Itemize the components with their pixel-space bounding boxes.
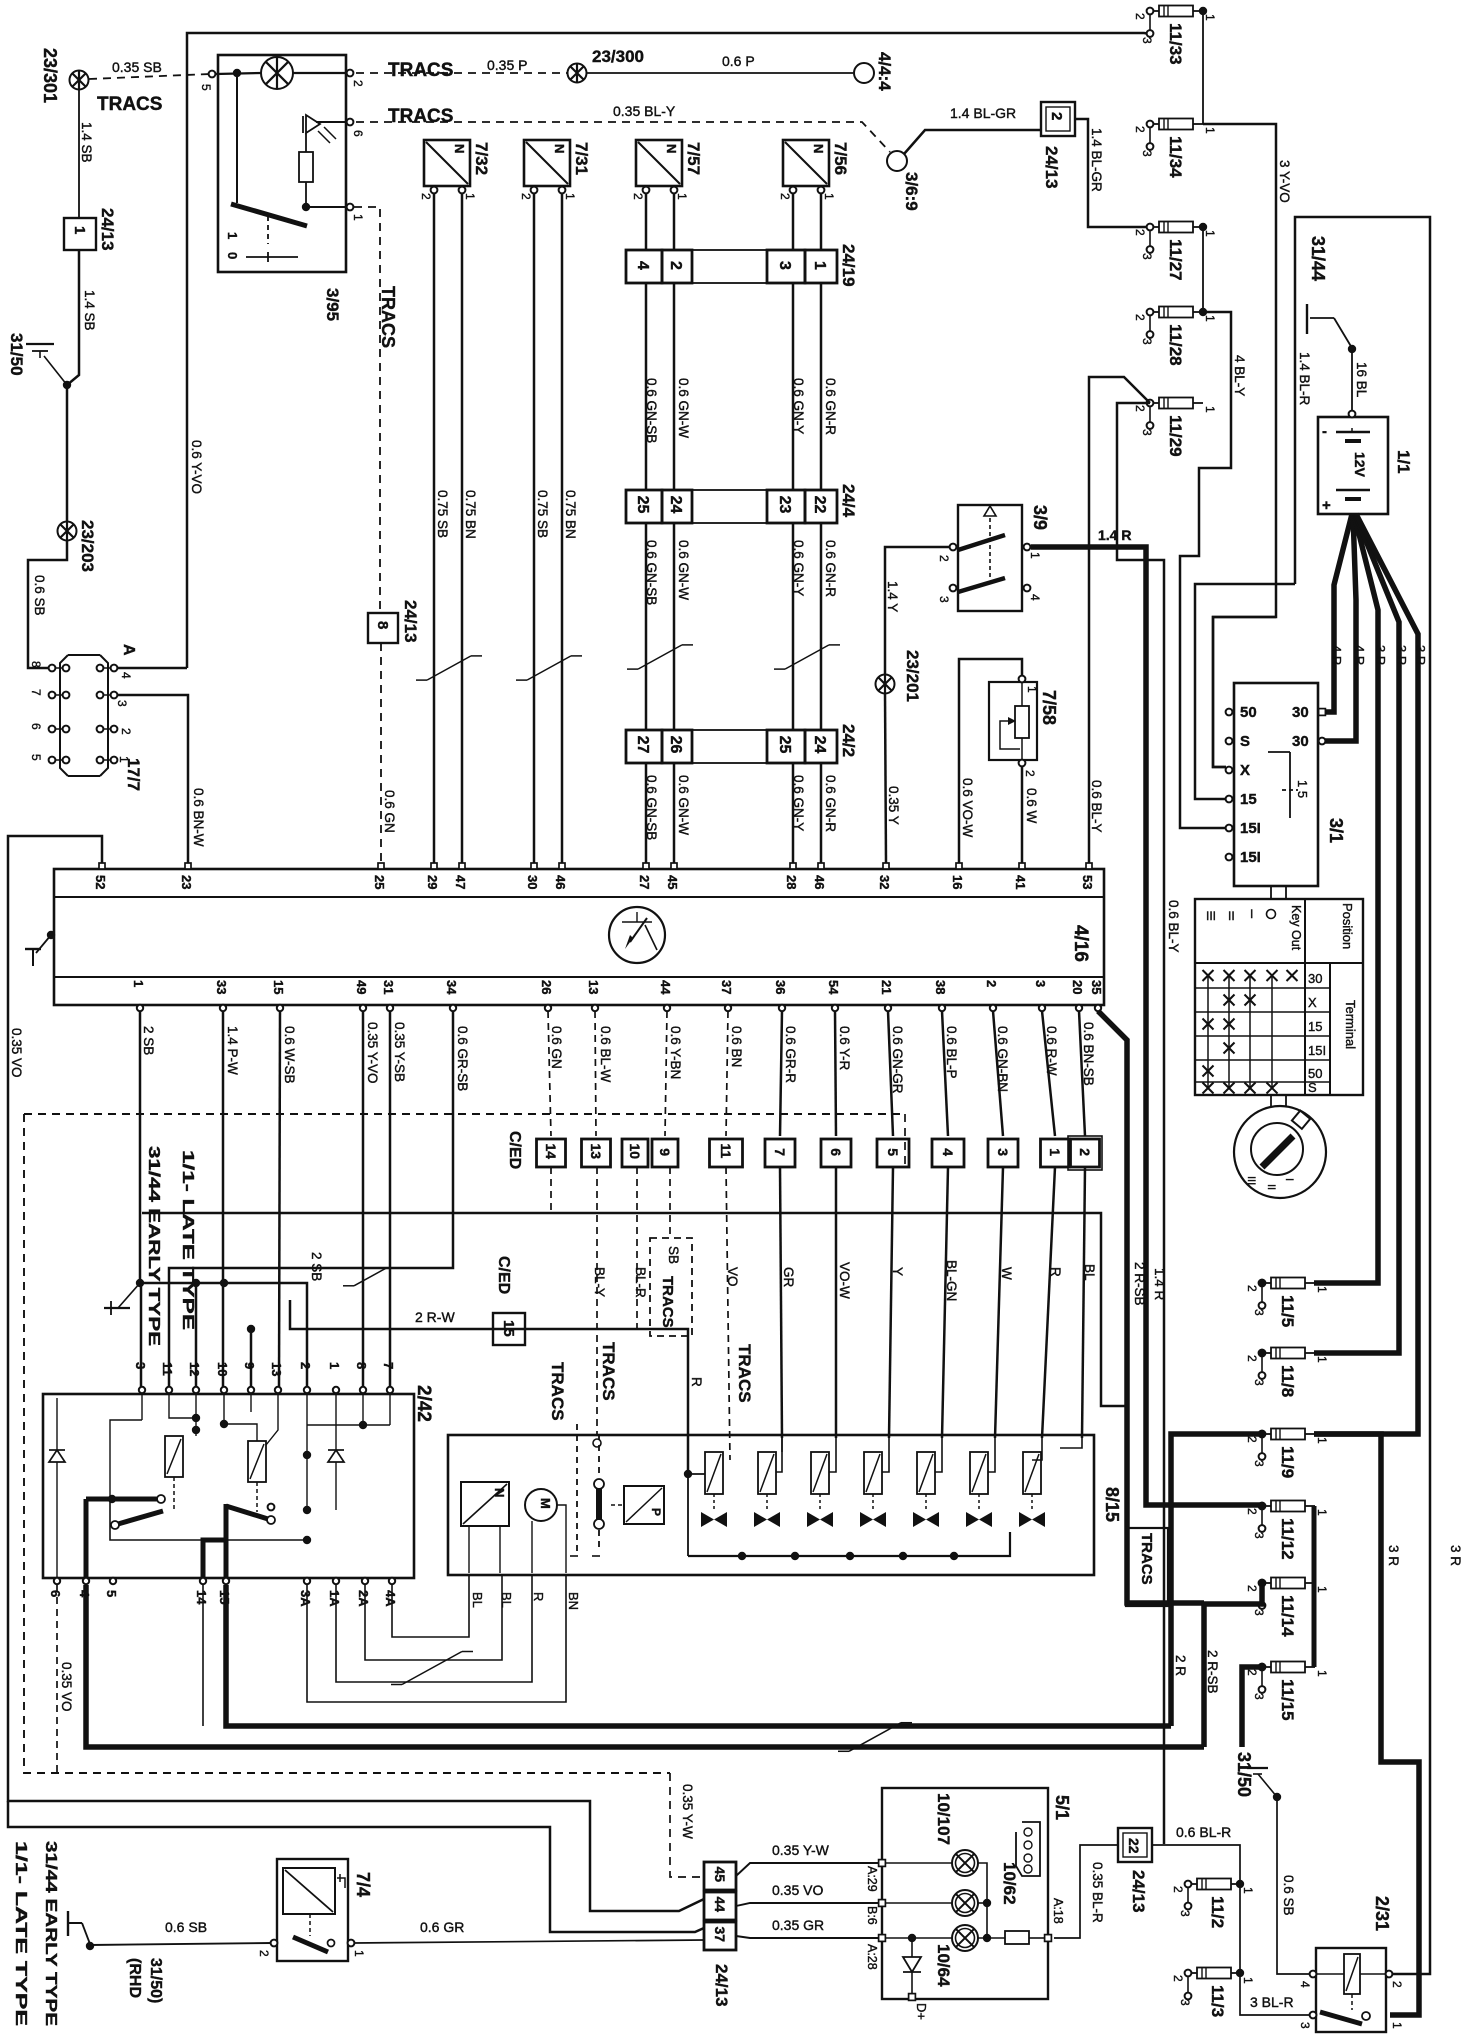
wire left lower branch — [8, 1801, 704, 1932]
svg-text:45: 45 — [665, 875, 680, 889]
svg-text:7: 7 — [29, 689, 43, 696]
wire 0.6 GN-R 24/2 to pin46 — [820, 762, 823, 863]
valve feed wire 6 — [988, 1438, 995, 1472]
wire to 2/42 pin9 — [250, 1329, 253, 1387]
wire thick 11/14-15 pin1 link — [1312, 1583, 1317, 1667]
wire 0.6 Y-BN pin44 to C/ED 9 (dashed) — [665, 1011, 667, 1136]
svg-text:2: 2 — [1245, 1355, 1259, 1362]
svg-text:4 R: 4 R — [1329, 645, 1344, 665]
wire SB dashed below C/ED — [669, 1167, 671, 1238]
svg-text:0.35 SB: 0.35 SB — [112, 59, 162, 75]
ground 31/50 bottom — [1247, 1767, 1268, 1769]
wire 0.35 VO into B:6 — [736, 1903, 879, 1906]
valve feed wire 2 — [776, 1438, 782, 1472]
svg-text:20: 20 — [1070, 980, 1085, 994]
svg-text:1.4 SB: 1.4 SB — [79, 122, 94, 163]
sensor 7/31 — [519, 140, 591, 200]
svg-text:31/44 EARLY TYPE: 31/44 EARLY TYPE — [42, 1841, 59, 2026]
svg-text:1: 1 — [1315, 1356, 1329, 1363]
svg-text:1: 1 — [225, 232, 240, 239]
wire 2 SB to 2/42 pins — [140, 1283, 307, 1387]
fuse 11/12 — [1245, 1501, 1329, 1560]
svg-text:3: 3 — [133, 1362, 148, 1369]
svg-text:A:28: A:28 — [865, 1944, 879, 1970]
svg-text:10/64: 10/64 — [934, 1944, 953, 1987]
svg-text:15I: 15I — [1240, 820, 1261, 837]
svg-text:2: 2 — [1133, 314, 1147, 321]
svg-text:1: 1 — [1315, 1437, 1329, 1444]
connector 24/13 item 2 — [1041, 102, 1075, 136]
ground 31/44 (battery earth) — [1306, 304, 1308, 334]
svg-text:II: II — [1265, 1184, 1277, 1190]
svg-text:1: 1 — [352, 1950, 366, 1957]
wire 0.6 GN-BN pin2 to C/ED 3 — [993, 1011, 1003, 1136]
sensor 7/57 — [631, 140, 703, 200]
svg-text:3/1: 3/1 — [1326, 818, 1346, 843]
break symbol pump wires — [391, 1652, 473, 1685]
wire battery thick L3 4R to 11/5 — [1314, 514, 1378, 1283]
valve feed wire 1 — [684, 1470, 692, 1478]
svg-text:0.6 BL-Y: 0.6 BL-Y — [1089, 780, 1104, 833]
svg-text:2: 2 — [419, 193, 433, 200]
wire 0.6 GN-R 24/4 to 24/2 — [820, 522, 823, 730]
svg-text:2/31: 2/31 — [1372, 1896, 1392, 1931]
svg-text:10: 10 — [215, 1362, 230, 1376]
wire 3/1 to key table stubs — [1270, 886, 1272, 899]
svg-text:0.6 BL-R: 0.6 BL-R — [1176, 1824, 1231, 1840]
wire table to key stubs — [1270, 1095, 1272, 1107]
svg-text:29: 29 — [425, 875, 440, 889]
svg-text:2: 2 — [1171, 1975, 1185, 1982]
svg-text:0.6 SB: 0.6 SB — [32, 575, 47, 616]
svg-text:3 R: 3 R — [1373, 645, 1388, 665]
svg-text:44: 44 — [712, 1896, 728, 1912]
wire thick 11/12 pin1 stub — [1312, 1506, 1317, 1583]
wire VO-W below C/ED to valve — [835, 1167, 838, 1438]
svg-text:1: 1 — [1203, 315, 1217, 322]
svg-text:11: 11 — [718, 1143, 734, 1158]
svg-text:30: 30 — [1308, 971, 1322, 986]
wire dashed below C ED 14 — [550, 1167, 552, 1213]
svg-text:26: 26 — [539, 980, 554, 994]
wire 3 BL-R to 2/31 pin3 — [1240, 1973, 1311, 2015]
svg-text:13: 13 — [588, 1143, 604, 1159]
svg-text:11/28: 11/28 — [1166, 324, 1185, 366]
ignition key symbol — [1234, 1106, 1326, 1198]
svg-text:0.6 BL-Y: 0.6 BL-Y — [1166, 900, 1181, 953]
svg-text:0.75 BN: 0.75 BN — [463, 490, 478, 539]
svg-text:1: 1 — [811, 261, 828, 270]
solenoid valve 6 in 8/15 — [966, 1452, 992, 1527]
wire battery thick L4 4R to 11/8 — [1314, 514, 1399, 1353]
svg-text:1: 1 — [463, 193, 477, 200]
svg-text:TRACS: TRACS — [548, 1362, 567, 1421]
svg-text:47: 47 — [453, 875, 468, 889]
valve bottom bus — [688, 1532, 1010, 1556]
break symbol sensor 7/31 wires — [516, 656, 582, 680]
wire thick 11/15 pin2 — [1242, 1667, 1262, 1747]
wire thick 11/9 pin2 2R — [1171, 1434, 1262, 1726]
svg-text:10/62: 10/62 — [1000, 1862, 1019, 1905]
connector 4/4:4 — [854, 63, 874, 83]
wire 0.6 BN-W 17/7 pin3 to 4/16 pin 23 — [117, 695, 188, 863]
svg-text:1: 1 — [1025, 686, 1039, 693]
svg-text:9: 9 — [657, 1148, 673, 1156]
wire 0.6 GN-SB 24/4 to 24/2 — [645, 522, 648, 730]
svg-text:0.35 VO: 0.35 VO — [59, 1662, 74, 1712]
wire 11/2 pin1 to 11/3 pin1 — [1239, 1884, 1241, 1973]
fuse 11/27 — [1133, 222, 1217, 281]
svg-text:2: 2 — [937, 555, 951, 562]
wire 0.6 GN-SB 24/2 to pin27 — [645, 762, 648, 863]
svg-text:6: 6 — [828, 1148, 844, 1156]
svg-text:1: 1 — [1203, 14, 1217, 21]
svg-text:2 SB: 2 SB — [141, 1026, 156, 1055]
connector 3/6:9 — [887, 151, 907, 171]
wire 0.6 GN-Y 24/2 to pin28 — [792, 762, 795, 863]
warning lamp 10/64 — [952, 1925, 978, 1951]
svg-text:24/13: 24/13 — [98, 208, 117, 251]
svg-text:2: 2 — [1245, 1508, 1259, 1515]
resistor in 5/1 — [1005, 1931, 1029, 1944]
svg-text:1/1: 1/1 — [1394, 450, 1413, 474]
wire 0.35 Y-VO pin49 to 2/42 pin8 — [362, 1011, 365, 1387]
svg-text:22: 22 — [1126, 1838, 1142, 1854]
svg-text:12: 12 — [187, 1362, 202, 1376]
svg-text:BL: BL — [470, 1592, 485, 1608]
wire dashed 0.35 BL-Y — [356, 122, 890, 152]
svg-text:1: 1 — [1203, 230, 1217, 237]
svg-text:6: 6 — [351, 130, 365, 137]
svg-text:12V: 12V — [1352, 452, 1368, 478]
wire thick 11/14 pin2 to 2R-SB net — [1204, 1583, 1262, 1747]
connector C/ED item 15 — [493, 1313, 525, 1345]
svg-text:0.6 GN-GR: 0.6 GN-GR — [890, 1026, 905, 1094]
wire 1.4 BL-GR to 24/13-2 — [904, 130, 1041, 154]
svg-text:8: 8 — [374, 621, 391, 629]
svg-text:4: 4 — [1298, 1981, 1312, 1988]
svg-text:0.35 Y-VO: 0.35 Y-VO — [365, 1022, 380, 1084]
svg-text:1: 1 — [131, 980, 146, 987]
fuse 11/5 — [1245, 1278, 1329, 1328]
svg-text:BN: BN — [566, 1592, 581, 1610]
svg-text:41: 41 — [1013, 875, 1028, 889]
svg-text:7/58: 7/58 — [1039, 690, 1059, 725]
svg-text:5: 5 — [199, 84, 213, 91]
svg-text:0.75 BN: 0.75 BN — [563, 490, 578, 539]
gauge symbol inside 4/16 — [609, 907, 665, 963]
sensor 7/32 — [419, 140, 491, 200]
svg-text:A:18: A:18 — [1051, 1898, 1065, 1924]
wire BL-R dashed below C/ED — [636, 1167, 638, 1330]
svg-text:5: 5 — [29, 754, 43, 761]
svg-text:7/56: 7/56 — [831, 142, 850, 175]
svg-text:31/50: 31/50 — [1234, 1752, 1254, 1797]
svg-text:A: A — [120, 644, 137, 656]
svg-text:1: 1 — [1047, 1148, 1063, 1156]
battery 1/1 — [1318, 417, 1388, 514]
break symbol GN-SB/GN-W wires — [627, 645, 693, 669]
svg-text:Terminal: Terminal — [1343, 1000, 1358, 1049]
svg-text:16 BL: 16 BL — [1354, 362, 1369, 398]
svg-text:0.35 VO: 0.35 VO — [9, 1028, 24, 1078]
svg-text:0.6 GN-W: 0.6 GN-W — [676, 775, 691, 835]
solenoid valve 2 in 8/15 — [754, 1452, 780, 1527]
wire 7/31 pin1 0.75 BN — [561, 193, 564, 863]
svg-text:1.4 R: 1.4 R — [1152, 1268, 1167, 1301]
svg-text:3 Y-VO: 3 Y-VO — [1277, 160, 1292, 203]
svg-text:1: 1 — [1203, 406, 1217, 413]
TRACS label box right — [1126, 1528, 1168, 1606]
svg-text:11/9: 11/9 — [1278, 1446, 1297, 1478]
wire 0.35 GR into A:28 — [736, 1936, 879, 1938]
svg-text:2 SB: 2 SB — [309, 1252, 324, 1281]
key position table — [1195, 899, 1363, 1095]
svg-text:46: 46 — [553, 875, 568, 889]
svg-text:3: 3 — [1252, 1609, 1266, 1616]
svg-text:2: 2 — [984, 980, 999, 987]
svg-text:0.35 P: 0.35 P — [487, 57, 527, 73]
svg-text:0.35 Y-W: 0.35 Y-W — [772, 1842, 830, 1858]
wire 7/56 pin2 — [792, 193, 795, 250]
connector 23/301 — [70, 71, 89, 90]
label TRACS in dashed box — [650, 1238, 692, 1336]
wire 7/56 pin1 — [820, 193, 823, 250]
svg-text:2: 2 — [351, 80, 365, 87]
svg-text:4/16: 4/16 — [1070, 925, 1091, 962]
wire dashed 3/95 pin2 to 23/300 — [356, 72, 567, 74]
svg-text:34: 34 — [444, 980, 459, 995]
svg-text:Y: Y — [890, 1267, 905, 1276]
wire 2/42 pin14 — [202, 1585, 204, 1726]
svg-text:0.6 Y-R: 0.6 Y-R — [837, 1026, 852, 1071]
svg-text:P: P — [649, 1508, 663, 1516]
connector 24/2 — [626, 730, 662, 763]
svg-text:2: 2 — [1245, 1436, 1259, 1443]
svg-text:1/1- LATE TYPE: 1/1- LATE TYPE — [12, 1841, 29, 2026]
svg-text:36: 36 — [773, 980, 788, 994]
svg-text:31/50: 31/50 — [7, 333, 26, 376]
svg-text:II: II — [1228, 909, 1235, 923]
break symbol on Y-VO wire — [343, 1268, 397, 1286]
wire 2/42 pin6 0.35 VO — [56, 1585, 58, 1773]
svg-text:1.4 Y: 1.4 Y — [885, 581, 900, 612]
svg-text:1: 1 — [1315, 1509, 1329, 1516]
wire 7/57 pin2 — [645, 193, 648, 250]
ground 31/44 early type — [104, 1307, 130, 1309]
svg-text:3: 3 — [1140, 37, 1154, 44]
svg-text:1: 1 — [1390, 2022, 1404, 2029]
wire 0.35 Y-W into A:29 — [736, 1863, 879, 1876]
wire 0.6 VO-W 7/58 pin1 to pin16 — [959, 659, 1022, 863]
fuse 11/2 — [1171, 1879, 1255, 1929]
wire 4/16 pin52 net — [8, 836, 704, 1911]
svg-text:15: 15 — [1240, 791, 1257, 808]
svg-text:15: 15 — [1308, 1019, 1322, 1034]
dashed TRACS link wires in 8/15 — [576, 1424, 578, 1552]
svg-text:TRACS: TRACS — [97, 94, 162, 115]
svg-text:I: I — [1283, 1178, 1295, 1181]
svg-text:7/4: 7/4 — [353, 1872, 373, 1897]
wire to 2/42 pin3 — [140, 1283, 143, 1387]
svg-text:0.6 SB: 0.6 SB — [1281, 1875, 1296, 1916]
4/16 bottom pin row — [131, 980, 1104, 1011]
svg-text:N: N — [552, 144, 567, 153]
svg-text:Key Out: Key Out — [1289, 905, 1303, 951]
connector C/ED row — [506, 1131, 1102, 1170]
svg-text:B:6: B:6 — [865, 1906, 879, 1925]
sensor 7/56 — [778, 140, 850, 200]
svg-text:3: 3 — [1252, 1532, 1266, 1539]
svg-text:21: 21 — [879, 980, 894, 994]
control module 4/16 (ABS/TRACS ECU) — [54, 869, 1104, 1005]
svg-text:BL: BL — [1082, 1264, 1097, 1281]
wire 0.6 GR 7/4 to 37 — [355, 1940, 704, 1943]
svg-text:TRACS: TRACS — [1138, 1533, 1155, 1585]
svg-text:0.6 GR-SB: 0.6 GR-SB — [455, 1026, 470, 1091]
wire 0.6 GN-Y 24/4 to 24/2 — [792, 522, 795, 730]
svg-text:5: 5 — [885, 1148, 901, 1156]
svg-text:2: 2 — [119, 728, 133, 735]
svg-text:3A: 3A — [298, 1590, 313, 1607]
connector 23/203 — [58, 522, 77, 541]
wire 0.6 BN pin37 to C/ED 11 — [726, 1011, 728, 1136]
dashed frame early/late type — [24, 1113, 905, 1115]
svg-text:S: S — [1240, 733, 1250, 750]
pressure switch P in 8/15 — [624, 1486, 664, 1524]
svg-text:5: 5 — [104, 1590, 119, 1597]
svg-text:4: 4 — [119, 672, 133, 679]
svg-text:27: 27 — [634, 736, 651, 754]
svg-text:N: N — [664, 144, 679, 153]
svg-text:7: 7 — [381, 1362, 396, 1369]
svg-text:0.6 GR-R: 0.6 GR-R — [783, 1026, 798, 1083]
wire thick 3R from 11/9 — [1314, 1434, 1419, 2015]
warning lamp 10/62 — [952, 1890, 978, 1916]
svg-text:BL: BL — [499, 1592, 514, 1608]
svg-text:11/2: 11/2 — [1208, 1896, 1227, 1928]
svg-text:25: 25 — [634, 496, 651, 514]
svg-text:2: 2 — [1245, 1285, 1259, 1292]
svg-text:1.4 P-W: 1.4 P-W — [225, 1026, 240, 1075]
svg-text:0.6 GN-W: 0.6 GN-W — [676, 378, 691, 438]
wire 1.4 P-W pin33 to 2/42 pin10 — [222, 1011, 225, 1387]
svg-text:30: 30 — [525, 875, 540, 889]
wire 11/29 pin2 branch 2 (0.6 BL-Y right) — [1117, 403, 1164, 1844]
svg-text:8: 8 — [354, 1362, 369, 1369]
svg-text:3: 3 — [1178, 1910, 1192, 1917]
fuse 11/33 — [1133, 6, 1217, 65]
svg-text:24/13: 24/13 — [1042, 146, 1061, 189]
svg-text:0.6 GN-SB: 0.6 GN-SB — [644, 775, 659, 840]
svg-text:0.6 W-SB: 0.6 W-SB — [282, 1026, 297, 1084]
connector 24/4 — [626, 490, 662, 523]
svg-text:1.4 R: 1.4 R — [1098, 527, 1131, 543]
wire 0.6 W 7/58 pin2 to pin41 — [1021, 766, 1024, 863]
svg-text:2 R: 2 R — [1173, 1655, 1188, 1676]
svg-text:III: III — [1206, 909, 1216, 923]
svg-text:+: + — [1322, 497, 1331, 514]
svg-text:9: 9 — [242, 1362, 257, 1369]
svg-text:0.6 BN-SB: 0.6 BN-SB — [1081, 1022, 1096, 1086]
svg-text:N: N — [811, 144, 826, 153]
svg-text:3: 3 — [776, 261, 793, 270]
svg-text:6: 6 — [29, 723, 43, 730]
fuse 11/14 — [1245, 1578, 1329, 1638]
svg-text:24: 24 — [667, 496, 684, 514]
svg-text:13: 13 — [269, 1362, 284, 1376]
svg-text:3 R: 3 R — [1394, 645, 1409, 665]
svg-text:24/4: 24/4 — [839, 484, 858, 518]
wire 11/29 pin2 branch to 0.6 BL-Y — [1089, 377, 1150, 863]
svg-text:-: - — [1322, 423, 1327, 440]
svg-text:3: 3 — [1252, 1379, 1266, 1386]
svg-text:N: N — [492, 1488, 507, 1497]
wire thick 2/42 pin4 2R-SB — [86, 1585, 1204, 1747]
svg-text:TRACS: TRACS — [378, 286, 398, 348]
svg-text:0.35 BL-Y: 0.35 BL-Y — [613, 103, 676, 119]
svg-text:BL-GN: BL-GN — [944, 1260, 959, 1301]
fuse 11/29 — [1133, 398, 1217, 457]
svg-text:0.6 BL-P: 0.6 BL-P — [944, 1026, 959, 1079]
wire 0.35 BL-R 5/1 to 22 — [1054, 1845, 1118, 1938]
4/16 left edge ground — [47, 931, 55, 939]
wire 0.6 GN-W 24/19 to 24/4 — [673, 282, 676, 490]
svg-text:III: III — [1245, 1176, 1257, 1185]
svg-text:3: 3 — [1298, 2022, 1312, 2029]
svg-text:11/29: 11/29 — [1166, 415, 1185, 457]
wire BL-Y dashed below C/ED — [596, 1167, 598, 1434]
wire battery thick L2 to 3/1 30b — [1322, 514, 1356, 741]
solenoid valve 3 in 8/15 — [807, 1452, 833, 1527]
connector 24/13 item 22 — [1118, 1828, 1152, 1862]
svg-text:R: R — [531, 1592, 546, 1601]
wire thick 2/42 pin15 2R — [226, 1585, 1171, 1726]
svg-text:24: 24 — [811, 736, 828, 754]
wire 2/42 pin1A to R — [336, 1576, 532, 1682]
svg-text:3: 3 — [1178, 1999, 1192, 2006]
svg-text:C/ED: C/ED — [506, 1131, 523, 1169]
wire 0.6 W-SB pin15 to 2/42 pin13 — [279, 1011, 280, 1387]
svg-text:45: 45 — [712, 1866, 728, 1882]
ground 31/50 top-left — [26, 343, 54, 345]
svg-text:31/44 EARLY TYPE: 31/44 EARLY TYPE — [145, 1146, 162, 1346]
wire 0.6 SB to 17/7 pin 8 — [28, 541, 67, 668]
svg-text:3 R: 3 R — [1448, 1545, 1463, 1566]
svg-text:2: 2 — [519, 193, 533, 200]
wire dashed below 24/13-8 (0.6 GN) — [380, 643, 382, 863]
svg-text:1: 1 — [1315, 1286, 1329, 1293]
svg-text:15: 15 — [500, 1320, 517, 1337]
svg-text:24/13: 24/13 — [401, 600, 420, 643]
wire 1.4 SB below 24/13 — [67, 250, 79, 522]
wire 0.6 GN-R 24/19 to 24/4 — [820, 282, 823, 490]
fuse 11/8 — [1245, 1348, 1329, 1398]
svg-text:15: 15 — [271, 980, 286, 994]
svg-text:2: 2 — [1048, 112, 1065, 120]
svg-text:1: 1 — [1241, 1887, 1255, 1894]
svg-text:14: 14 — [543, 1143, 559, 1159]
connector 45 44 37 — [704, 1862, 736, 1890]
svg-text:TRACS: TRACS — [388, 60, 453, 81]
wire 0.6 BN-SB pin20 to C/ED 2 — [1079, 1011, 1085, 1136]
wire long horizontal bus y1213 — [142, 1213, 1127, 1406]
svg-text:1: 1 — [1315, 1670, 1329, 1677]
pump relay box N in 8/15 — [461, 1482, 509, 1526]
wire R below C/ED to valve — [1042, 1167, 1055, 1438]
wire Y below C/ED to valve — [889, 1167, 893, 1438]
svg-text:1: 1 — [675, 193, 689, 200]
